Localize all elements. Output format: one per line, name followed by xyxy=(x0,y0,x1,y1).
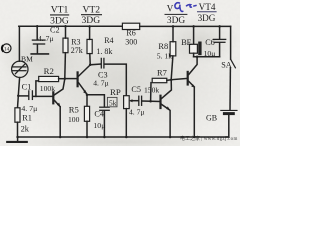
wire R5 bottom lead xyxy=(86,121,88,137)
resistor R8 xyxy=(170,42,176,56)
node bus RP xyxy=(125,136,128,139)
node C2 top xyxy=(36,25,39,28)
circled numeral 14 xyxy=(2,44,11,53)
resistor R5 xyxy=(84,106,89,121)
capacitor C4 xyxy=(100,107,109,110)
wire C6 bottom lead xyxy=(219,43,221,57)
wire C1 to VT1 base xyxy=(33,95,53,97)
svg-text:150k: 150k xyxy=(144,85,159,94)
resistor R7 xyxy=(152,78,167,82)
resistor R3 xyxy=(63,38,68,53)
capacitor C2 xyxy=(31,26,48,54)
label R1 value xyxy=(21,114,32,134)
svg-text:3DG: 3DG xyxy=(198,13,216,23)
label R3 value xyxy=(71,38,83,55)
wire VT2 collector to C3 xyxy=(90,63,100,66)
switch SA xyxy=(231,60,236,68)
ground symbol xyxy=(7,137,27,142)
label VT4 3DG xyxy=(197,2,217,23)
node VT2 emitter xyxy=(86,94,89,97)
wire BE top lead xyxy=(193,26,195,44)
potentiometer RP xyxy=(124,96,130,109)
wire C6 top lead xyxy=(219,26,221,38)
svg-text:1. 8k: 1. 8k xyxy=(96,47,112,56)
wire RP wiper to C5 xyxy=(129,99,138,102)
svg-text:R6: R6 xyxy=(126,28,135,37)
svg-text:100: 100 xyxy=(68,115,80,124)
node VT3 collector xyxy=(170,78,173,81)
wire R3 top lead xyxy=(65,26,67,38)
svg-text:100k: 100k xyxy=(40,84,55,93)
resistor R4 xyxy=(87,39,92,53)
resistor R2 xyxy=(39,76,59,81)
svg-text:4. 7μ: 4. 7μ xyxy=(93,79,108,88)
wire RP bottom lead xyxy=(125,109,127,137)
wire output node horizontal xyxy=(194,56,220,58)
wire VT3 emitter to ground bus xyxy=(169,111,171,137)
earphone BE xyxy=(190,42,202,56)
svg-text:C6: C6 xyxy=(205,38,215,47)
svg-text:3DG: 3DG xyxy=(81,15,100,26)
label C2 value xyxy=(38,25,60,43)
svg-text:RP: RP xyxy=(110,87,121,97)
transistor Q3 VT3 xyxy=(161,80,172,111)
svg-text:VT1: VT1 xyxy=(51,5,69,16)
svg-text:4. 7μ: 4. 7μ xyxy=(129,107,144,116)
svg-text:C2: C2 xyxy=(50,25,60,34)
resistor R1 xyxy=(15,96,20,137)
wire C5 to VT3 base xyxy=(142,100,160,103)
capacitor C6 xyxy=(213,39,225,42)
wire top bus left segment xyxy=(19,25,123,27)
svg-text:BM: BM xyxy=(21,55,33,64)
svg-text:10μ: 10μ xyxy=(93,121,105,130)
blue handwriting scribble xyxy=(175,3,196,12)
transistor Q2 VT2 xyxy=(78,65,91,95)
svg-text:R1: R1 xyxy=(22,114,32,123)
svg-text:VT2: VT2 xyxy=(83,5,101,16)
wire C3 to RP corner xyxy=(105,64,127,96)
paper background xyxy=(0,0,240,146)
wire right border upper xyxy=(230,26,232,59)
svg-text:5k: 5k xyxy=(109,98,117,107)
node R8 top xyxy=(172,25,175,28)
svg-text:14: 14 xyxy=(4,46,10,52)
wire collector node to VT2 base xyxy=(65,78,77,80)
wire R8 bottom lead xyxy=(171,56,173,79)
transistor Q4 VT4 xyxy=(188,57,197,88)
svg-text:R5: R5 xyxy=(69,105,79,115)
node bus VT1e xyxy=(59,136,62,139)
wire R7 left drop xyxy=(150,83,152,102)
label VT2 3DG xyxy=(81,5,102,26)
label RP value xyxy=(107,87,120,107)
wire mic to C1 node xyxy=(18,78,19,96)
svg-text:R8: R8 xyxy=(158,42,168,51)
wire R4 bottom lead xyxy=(89,54,91,65)
wire R2 right to collector node xyxy=(59,78,65,80)
label R6 value xyxy=(125,28,137,46)
wire VT2 emitter to R5 xyxy=(86,95,88,107)
label C1 value xyxy=(21,83,37,113)
node bus C4 xyxy=(103,136,106,139)
label R8 value xyxy=(157,42,172,60)
svg-text:SA: SA xyxy=(221,61,232,70)
node C6 top xyxy=(218,25,221,28)
node VT3 base xyxy=(149,100,152,103)
node R3 top xyxy=(64,25,67,28)
svg-text:4. 7μ: 4. 7μ xyxy=(38,34,53,43)
capacitor C3 xyxy=(101,58,104,68)
label R7 value xyxy=(144,69,167,95)
svg-text:C1: C1 xyxy=(22,83,32,92)
node VT4 collector xyxy=(196,55,199,58)
svg-text:R2: R2 xyxy=(44,66,54,76)
node BE top xyxy=(192,25,195,28)
node bus VT3e xyxy=(169,136,172,139)
svg-text:5. 1k: 5. 1k xyxy=(157,51,172,60)
svg-text:10μ: 10μ xyxy=(204,49,216,58)
label R2 value xyxy=(40,66,55,93)
wire left rail upper xyxy=(18,26,20,61)
capacitor C5 xyxy=(139,96,142,105)
svg-text:GB: GB xyxy=(206,113,217,122)
wire battery to ground bus xyxy=(226,115,229,137)
svg-text:27k: 27k xyxy=(71,46,83,55)
wire R4 top lead xyxy=(89,26,91,39)
svg-text:4. 7μ: 4. 7μ xyxy=(21,104,37,113)
label C6 value xyxy=(204,38,216,58)
capacitor C1 xyxy=(29,91,33,100)
microphone BM xyxy=(12,61,28,77)
label R5 value xyxy=(68,105,80,125)
wire C4 bottom lead xyxy=(103,111,105,137)
wire VT1 emitter to ground bus xyxy=(59,107,61,137)
wire emitter node to C4 xyxy=(87,95,104,107)
svg-text:R7: R7 xyxy=(157,69,167,78)
label C3 value xyxy=(93,70,108,87)
svg-text:电工之家: 电工之家 xyxy=(180,135,200,142)
wire R7 right to collector node xyxy=(167,79,171,82)
node VT1 collector xyxy=(64,77,67,80)
watermark xyxy=(180,135,238,142)
label R4 value xyxy=(96,36,113,56)
svg-text:300: 300 xyxy=(125,38,137,47)
resistor R6 xyxy=(122,23,139,29)
label C4 value xyxy=(93,109,105,129)
svg-text:C4: C4 xyxy=(94,109,104,118)
wire R3 bottom lead xyxy=(64,53,67,79)
wire VT4 emitter to ground bus xyxy=(193,88,195,137)
wire R8 top lead xyxy=(172,26,174,41)
svg-text:C5: C5 xyxy=(131,85,141,94)
battery GB xyxy=(221,110,237,113)
node bus R5 xyxy=(86,136,89,139)
svg-text:3DG: 3DG xyxy=(167,16,185,26)
label C5 value xyxy=(129,85,144,116)
svg-text:VT4: VT4 xyxy=(199,2,216,12)
label VT3 3DG xyxy=(165,3,188,26)
wire bottom ground bus xyxy=(18,136,229,138)
label VT1 3DG xyxy=(50,5,69,27)
svg-text:V: V xyxy=(167,3,174,13)
wire VT3 collector node to VT4 base xyxy=(171,78,187,79)
node R4 top xyxy=(88,25,91,28)
transistor Q1 VT1 xyxy=(53,79,65,108)
svg-text:R4: R4 xyxy=(104,36,113,45)
wire node to C1 xyxy=(18,95,28,97)
node bus VT4e xyxy=(193,136,196,139)
node R1 bottom xyxy=(16,136,19,139)
svg-text:BE: BE xyxy=(181,38,191,47)
node C1 junction xyxy=(17,94,20,97)
wire top bus right segment xyxy=(140,25,231,27)
svg-text:2k: 2k xyxy=(21,124,30,133)
wire R2 left drop xyxy=(36,81,39,97)
wire right border lower xyxy=(229,68,231,110)
svg-text:| www.dgzj.com: | www.dgzj.com xyxy=(201,137,238,142)
node VT2 collector xyxy=(89,64,92,67)
wire BE bottom lead xyxy=(193,53,195,57)
